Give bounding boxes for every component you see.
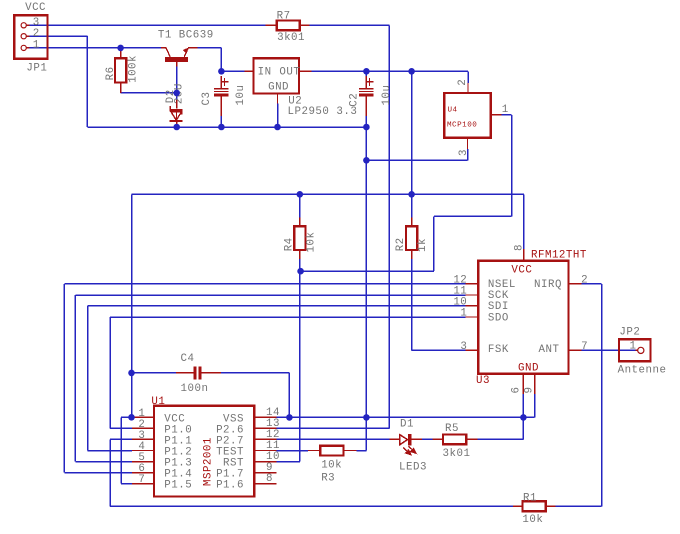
resistor R3 [308, 450, 321, 452]
svg-text:P1.6: P1.6 [216, 480, 244, 492]
svg-text:3: 3 [458, 149, 470, 156]
junction R4 bottom reset net [297, 268, 304, 275]
wire U1 pin1 VCC net with pin7 tie [121, 416, 132, 418]
junction C3 ground [218, 124, 225, 131]
capacitor C2 [365, 76, 367, 88]
junction U1 VCC pin1 [128, 414, 135, 421]
wire U2 OUT to U4 pin2 corner [312, 70, 468, 72]
svg-text:D1: D1 [400, 418, 414, 430]
svg-text:R1: R1 [523, 493, 537, 505]
svg-text:FSK: FSK [488, 344, 509, 356]
svg-text:LP2950 3.3: LP2950 3.3 [288, 106, 358, 118]
svg-text:JP2: JP2 [619, 327, 640, 339]
junction C4 left on 3.3V drop [128, 370, 135, 377]
svg-text:MSP2001: MSP2001 [202, 437, 214, 486]
svg-text:2: 2 [457, 79, 469, 86]
wire reset jog up [433, 216, 435, 271]
wire net VCC: R7 right to corner [310, 24, 390, 26]
svg-text:OUT: OUT [279, 66, 300, 78]
svg-text:R5: R5 [445, 423, 459, 435]
svg-text:10u: 10u [381, 85, 393, 106]
wire reset row [301, 270, 434, 272]
svg-text:10k: 10k [522, 514, 543, 526]
svg-text:10u: 10u [235, 85, 247, 106]
junction R2 top on 3.3V rail [408, 191, 415, 198]
svg-text:R6: R6 [105, 66, 117, 80]
pin stubs GND 6 9 of U3 [522, 374, 524, 394]
wire 3.3V left drop to C4 and U1 VCC [131, 194, 133, 417]
junction JP1 pin1 / R6 [117, 45, 124, 52]
wire U4 pin3 row [366, 159, 467, 161]
junction R4 top on 3.3V rail [297, 191, 304, 198]
wire net VCC down right side to P2.6 row [388, 25, 390, 428]
wire down to U4 pin2 [467, 71, 469, 83]
wire 3.3V rail [132, 193, 524, 195]
wire GND vertical C2 to R3 corner [365, 127, 367, 451]
svg-text:10k: 10k [321, 460, 342, 472]
wire R4 bottom to reset net [299, 259, 301, 271]
wire NIRQ stub net [581, 283, 601, 285]
junction D2 ground [173, 124, 180, 131]
junction OUT net feed [408, 68, 415, 75]
wire 3.3V feed down from OUT net [411, 71, 413, 194]
wire net NSEL [64, 283, 465, 285]
plus sign of C2 [366, 81, 374, 83]
wire R1 right to NIRQ vertical [555, 505, 601, 507]
wire U3 GND pin6 drop [522, 394, 524, 417]
wire R2 top [411, 194, 413, 217]
junction U4 pin3 row [363, 157, 370, 164]
svg-text:1k: 1k [417, 238, 429, 252]
wire 3.3V to U3 VCC pin8 [523, 194, 525, 249]
wire U3 GND pin9 drop [534, 394, 536, 417]
left pin stubs of U1 [132, 416, 154, 418]
wire net SDI [88, 305, 466, 307]
svg-text:2: 2 [33, 28, 40, 40]
svg-text:3: 3 [460, 341, 467, 353]
wire GND to R5 corner [522, 417, 524, 439]
svg-text:R3: R3 [321, 473, 335, 485]
resistor R4 [299, 218, 301, 227]
svg-text:GND: GND [268, 82, 289, 94]
svg-text:100n: 100n [181, 383, 209, 395]
wire P2.6 row to U1 pin13 [276, 427, 389, 429]
svg-text:Antenne: Antenne [618, 364, 667, 376]
wire C4 right to VSS row [221, 372, 290, 374]
junction GND vertical on VSS row [363, 414, 370, 421]
pin 8 VCC stub of U3 [523, 249, 525, 261]
svg-text:1: 1 [33, 39, 40, 51]
svg-text:10k: 10k [306, 232, 318, 253]
svg-text:U3: U3 [476, 375, 490, 387]
wire C3 bottom stem to ground rail [220, 116, 222, 127]
svg-text:JP1: JP1 [26, 62, 47, 74]
ic U1 MSP2001 [154, 406, 254, 497]
junction C4 right on VSS row [286, 414, 293, 421]
wire C2 bottom stem to ground rail [365, 116, 367, 127]
wire net VCC: JP1 pin3 to R7 [30, 24, 266, 26]
wire RST to reset net riser [276, 461, 299, 463]
svg-text:U4: U4 [448, 107, 458, 115]
wire T1 emitter to C3 top [197, 47, 221, 49]
svg-text:R4: R4 [283, 237, 295, 251]
svg-text:7: 7 [138, 474, 145, 486]
wire net GND: JP1 pin2 right [30, 35, 88, 37]
svg-text:VCC: VCC [511, 264, 532, 276]
svg-text:3k01: 3k01 [443, 448, 471, 460]
wire R6 bottom to base node [120, 91, 122, 93]
wire net GND: down [86, 36, 88, 127]
junction C3 top [218, 68, 225, 75]
connector JP2 [619, 339, 651, 361]
svg-text:6: 6 [511, 387, 523, 394]
svg-text:U1: U1 [151, 396, 165, 408]
svg-text:1: 1 [630, 341, 637, 353]
svg-text:7: 7 [581, 341, 588, 353]
wire R4 top stub net [299, 194, 301, 217]
svg-text:C3: C3 [201, 92, 213, 106]
connector JP1 [14, 15, 47, 58]
junction C2 top [363, 68, 370, 75]
svg-text:GND: GND [518, 362, 539, 374]
svg-text:IN: IN [258, 66, 272, 78]
svg-text:SDO: SDO [488, 312, 509, 324]
svg-text:ANT: ANT [539, 344, 560, 356]
resistor R7 [265, 24, 277, 26]
svg-text:R7: R7 [277, 11, 291, 23]
wire T1 base to D2 node [176, 67, 178, 102]
svg-text:8: 8 [514, 244, 526, 251]
capacitor C4 [176, 372, 193, 374]
svg-text:VCC: VCC [25, 2, 46, 14]
junction U2 GND ground [274, 124, 281, 131]
capacitor C3 [220, 76, 222, 88]
svg-text:MCP100: MCP100 [447, 121, 477, 129]
wire VSS row U1 pin14 to U3 GND [276, 416, 523, 418]
wire C4 left [132, 372, 177, 374]
right pin stubs of U1 [254, 416, 276, 418]
resistor R6 [120, 48, 122, 58]
junction T1 base / R6 / D2 [173, 90, 180, 97]
resistor R1 [513, 505, 523, 507]
plus sign of C3 [221, 81, 229, 83]
svg-text:C4: C4 [181, 353, 195, 365]
voltage regulator U2 LP2950 [254, 58, 300, 93]
wire P1.1 to bottom rail [110, 438, 132, 440]
wire net SDO [110, 316, 465, 318]
supervisor U4 MCP100 [444, 93, 491, 138]
wire R3 right to GND vertical [357, 450, 367, 452]
svg-text:T1: T1 [158, 29, 172, 41]
svg-text:1: 1 [502, 104, 509, 116]
junction C2 ground [363, 124, 370, 131]
wire U4 pin1 [502, 114, 512, 116]
zener diode D2 [176, 100, 178, 109]
wire JP1 pin1 to R6 and T1 base node [30, 47, 163, 49]
wire bottom rail to R1 [110, 505, 513, 507]
wire R2 bottom to FSK [411, 259, 413, 351]
svg-text:P1.5: P1.5 [164, 480, 192, 492]
wire ground rail [87, 126, 366, 128]
led arrows of D1 [403, 446, 416, 454]
pin stubs NIRQ ANT of U3 [569, 283, 582, 285]
svg-text:C2: C2 [348, 93, 360, 107]
wire P2.7 row to LED D1 [276, 438, 389, 440]
pin stubs NSEL SCK SDI SDO FSK of U3 [465, 283, 478, 285]
svg-text:100k: 100k [128, 55, 140, 83]
svg-text:9: 9 [524, 387, 536, 394]
resistor R5 [433, 438, 444, 440]
svg-text:SDI: SDI [488, 301, 509, 313]
wire C2 top stem [365, 71, 367, 80]
wire C3 node to U2 IN [221, 70, 244, 72]
svg-text:1: 1 [460, 308, 467, 320]
svg-text:LED3: LED3 [399, 461, 427, 473]
transistor T1 BC639 [161, 47, 166, 49]
svg-text:RFM12THT: RFM12THT [531, 249, 587, 261]
svg-text:2: 2 [581, 275, 588, 287]
svg-text:NSEL: NSEL [488, 279, 516, 291]
svg-text:3k01: 3k01 [277, 32, 305, 44]
wire net SCK [75, 294, 465, 296]
wire U2 GND to ground rail [277, 104, 279, 127]
svg-text:BC639: BC639 [179, 29, 214, 41]
svg-text:R2: R2 [395, 237, 407, 251]
wire TEST to R3 [276, 450, 308, 452]
wire LED to R5 [422, 438, 433, 440]
radio module U3 RFM12THT [478, 261, 568, 374]
wire ANT to JP2 [581, 349, 635, 351]
svg-text:NIRQ: NIRQ [534, 279, 562, 291]
led D1 [389, 438, 399, 440]
resistor R2 [411, 218, 413, 227]
svg-text:8: 8 [266, 473, 273, 485]
junction U3 GND pins on VSS row [520, 414, 527, 421]
